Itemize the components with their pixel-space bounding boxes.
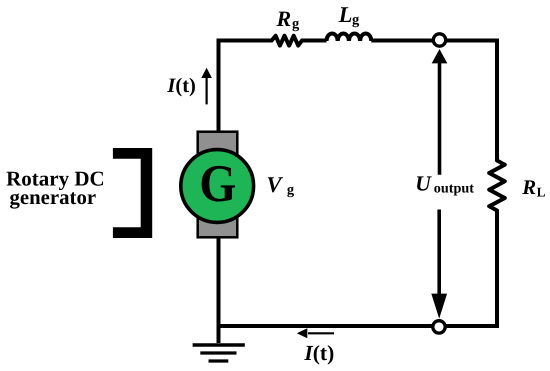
ground xyxy=(193,345,245,361)
svg-text:G: G xyxy=(199,155,236,213)
arrow: I(t) bottom current arrow xyxy=(297,328,334,338)
svg-text:R: R xyxy=(276,6,292,31)
Uoutput down arrow xyxy=(431,210,447,319)
svg-text:g: g xyxy=(352,12,360,28)
bracket for Rotary DC generator xyxy=(113,148,152,238)
wire: right vertical upper xyxy=(495,39,499,161)
svg-text:g: g xyxy=(292,16,300,32)
wire: between Rg and Lg xyxy=(302,39,327,43)
arrow: I(t) top-left current arrow xyxy=(201,68,212,105)
node: bottom output terminal xyxy=(433,321,445,333)
svg-text:L: L xyxy=(537,185,546,200)
inductor Lg xyxy=(327,33,372,41)
wire: bottom horizontal xyxy=(217,324,500,328)
svg-text:I(t): I(t) xyxy=(303,341,334,365)
wire: top horizontal left segment xyxy=(219,39,272,43)
svg-text:U: U xyxy=(415,172,432,196)
generator brush block (gray rectangle) xyxy=(198,132,238,238)
generator G (green circle) xyxy=(181,150,254,223)
wire: top horizontal right segment xyxy=(371,39,497,43)
resistor RL xyxy=(489,161,505,211)
wire: ground stub xyxy=(217,326,221,343)
Uoutput up arrow xyxy=(432,49,448,175)
svg-text:R: R xyxy=(521,176,536,199)
wire: left vertical upper xyxy=(217,39,221,134)
wire: right vertical lower xyxy=(495,211,499,329)
node: top output terminal xyxy=(433,34,445,46)
wire: left vertical lower xyxy=(217,237,221,328)
svg-text:g: g xyxy=(287,182,295,198)
svg-text:generator: generator xyxy=(9,186,96,209)
svg-text:I(t): I(t) xyxy=(166,75,195,97)
svg-text:output: output xyxy=(434,181,474,197)
resistor Rg xyxy=(272,36,302,46)
svg-text:L: L xyxy=(338,2,353,27)
svg-text:V: V xyxy=(267,172,284,197)
